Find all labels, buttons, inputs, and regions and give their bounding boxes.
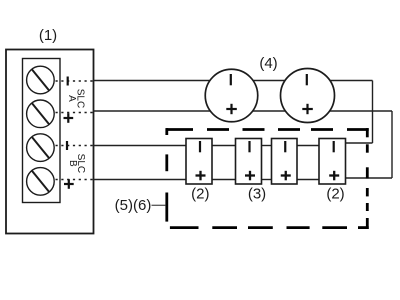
dashed enclosure bottom edge <box>170 226 369 229</box>
label (2) under M1 <box>191 186 209 203</box>
dashed enclosure right edge <box>366 128 369 229</box>
label (3) <box>248 186 266 203</box>
wire SLC A+ block to detector D1 <box>93 110 210 112</box>
wire M2 minus to M3 minus <box>262 145 272 147</box>
label (4) <box>259 55 277 72</box>
screw terminal 2 <box>27 100 55 128</box>
dotted lead terminal 3 <box>56 145 94 147</box>
dotted lead terminal 4 <box>56 179 94 181</box>
module M2 <box>236 139 262 185</box>
wire vertical drop A- to module M4 <box>372 81 374 144</box>
wire SLC A- detector D2 to right corner <box>329 80 373 82</box>
detector D1 <box>205 69 258 122</box>
wire SLC A+ detector D2 to right corner <box>329 110 392 112</box>
dotted lead terminal 1 <box>56 80 94 82</box>
screw terminal 1 <box>27 66 55 94</box>
svg-text:SLC: SLC <box>75 154 86 173</box>
wire M3 plus to M4 plus <box>297 179 319 181</box>
screw terminal 4 <box>27 168 55 196</box>
wire M2 plus to M3 plus <box>262 179 272 181</box>
terminal strip inner body <box>23 59 61 203</box>
wire M3 minus to M4 minus <box>297 145 319 147</box>
net label A SLC <box>66 89 85 108</box>
label (1) <box>39 27 57 44</box>
dashed enclosure left edge <box>165 128 168 222</box>
svg-text:(3): (3) <box>248 186 266 203</box>
svg-text:(2): (2) <box>326 186 344 203</box>
svg-text:(4): (4) <box>259 55 277 72</box>
wire M4 minus to right riser <box>346 142 373 144</box>
minus mark terminal 3 <box>66 141 68 150</box>
net label B SLC <box>67 154 86 173</box>
svg-text:(2): (2) <box>191 186 209 203</box>
module M4 <box>319 139 346 185</box>
leader line for (5)(6) <box>152 204 166 206</box>
svg-text:(5)(6): (5)(6) <box>115 197 152 214</box>
wire vertical drop A+ to module M4 <box>391 111 393 178</box>
dashed enclosure top edge <box>166 128 369 131</box>
minus mark terminal 1 <box>67 77 69 86</box>
wire SLC A- detector D1 to detector D2 <box>253 80 286 82</box>
wire M4 plus to far right riser <box>346 177 393 179</box>
screw terminal 3 <box>27 134 55 162</box>
svg-text:SLC: SLC <box>74 89 85 108</box>
wire M1 plus to M2 plus <box>212 179 236 181</box>
plus mark terminal 2 <box>64 113 74 123</box>
module M1 <box>186 139 212 185</box>
label (5)(6) <box>115 197 152 214</box>
terminal block TB1 outer body <box>6 50 94 234</box>
plus mark terminal 4 <box>64 179 74 189</box>
wire M1 minus to M2 minus <box>212 145 236 147</box>
wire SLC A- block to detector D1 <box>93 80 210 82</box>
dotted lead terminal 2 <box>56 112 94 114</box>
wire SLC B- block to module M1 <box>93 145 186 147</box>
svg-text:(1): (1) <box>39 27 57 44</box>
module M3 <box>272 139 298 185</box>
detector D2 <box>281 69 335 123</box>
label (2) under M4 <box>326 186 344 203</box>
wire SLC A+ detector D1 to detector D2 <box>253 110 287 112</box>
wire SLC B+ block to module M1 <box>93 179 186 181</box>
